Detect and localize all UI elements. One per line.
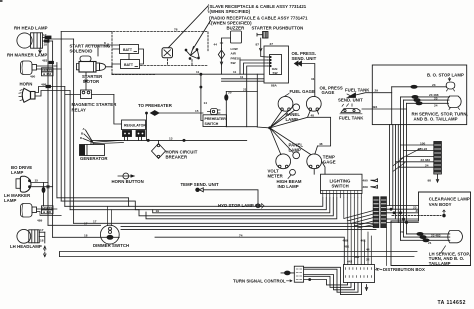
hyd stop lamp switch S7 <box>256 204 265 209</box>
svg-text:LAMP: LAMP <box>289 147 301 152</box>
dashed stub below LH headlamp <box>44 246 46 257</box>
wire 20 with inline connector <box>225 91 232 127</box>
svg-text:11: 11 <box>196 70 200 74</box>
slave receptacle callout label <box>208 4 307 14</box>
high beam indicator lamp label <box>277 175 302 189</box>
connector bar output wires <box>386 205 418 222</box>
svg-text:FUEL TANK: FUEL TANK <box>345 88 370 93</box>
svg-text:18: 18 <box>40 239 44 243</box>
wire ign pin 3 down to bus <box>244 63 268 74</box>
arrow tick below distribution box <box>365 285 367 291</box>
LH headlamp label <box>10 244 42 249</box>
starter pushbutton label <box>252 26 304 31</box>
fuel tank label <box>339 115 364 120</box>
svg-text:AIR: AIR <box>231 52 237 56</box>
wire node to volt meter <box>270 128 281 155</box>
wire 24 to LH taillamp <box>400 230 450 235</box>
svg-text:13: 13 <box>169 136 173 140</box>
clearance lamp dashed wire and lamp <box>392 209 445 217</box>
lighting switch pin stubs <box>323 194 362 198</box>
drawing number TA 114652 <box>438 300 466 306</box>
wire starter motor to relay <box>85 72 87 90</box>
wire 11 bus <box>112 70 264 74</box>
long harness wire A <box>57 198 323 207</box>
magnetic starter relay label <box>72 102 118 112</box>
generator G1 <box>80 145 105 156</box>
horn LS1 <box>19 88 35 102</box>
low air pressure switch S1 <box>218 49 224 75</box>
harness top jog wire <box>61 31 112 33</box>
svg-text:489: 489 <box>363 185 368 189</box>
svg-text:TO PREHEATER: TO PREHEATER <box>138 103 173 108</box>
svg-text:PRESS: PRESS <box>231 56 242 60</box>
svg-text:23: 23 <box>413 205 417 209</box>
svg-text:SOLENOID: SOLENOID <box>70 49 93 54</box>
fuel tank sending unit MT3 <box>347 93 356 98</box>
lighting switch S5 <box>321 174 363 193</box>
preheater switch label box <box>203 115 227 127</box>
svg-text:489: 489 <box>37 219 42 223</box>
slave receptacle J1 <box>162 48 173 58</box>
svg-text:490: 490 <box>363 178 368 182</box>
turn signal wire loop 4 <box>304 276 351 287</box>
starter pushbutton S2 <box>256 32 269 58</box>
wire 24 to trailer connector <box>398 164 434 168</box>
clearance lamp van body box <box>391 192 471 266</box>
svg-text:DIMMER SWITCH: DIMMER SWITCH <box>93 243 129 248</box>
svg-text:48: 48 <box>311 113 315 117</box>
svg-text:SW: SW <box>273 71 278 75</box>
harness vertical wire 1 <box>47 37 49 225</box>
temp gage label <box>323 155 336 165</box>
RH taillamp label <box>412 112 468 122</box>
svg-text:VAN BODY: VAN BODY <box>429 202 452 207</box>
battery BAT1 <box>120 45 139 54</box>
wire 490 from BO drive lamp <box>32 179 49 207</box>
svg-text:461: 461 <box>361 239 366 243</box>
oil pressure sending unit MT1 <box>295 61 315 96</box>
wire 489 connector stub <box>363 185 378 189</box>
svg-text:481: 481 <box>344 245 349 249</box>
svg-text:SEND. UNIT: SEND. UNIT <box>292 56 317 61</box>
panel lamp 1 E6 <box>293 104 300 111</box>
svg-text:& 484: & 484 <box>43 72 52 76</box>
svg-text:TEMP SEND. UNIT: TEMP SEND. UNIT <box>181 182 219 187</box>
wire node to panel lamp 2 <box>270 128 293 152</box>
oil pressure sending unit label <box>292 51 317 61</box>
ignition switch outer housing <box>264 42 289 83</box>
starter motor label <box>82 74 103 84</box>
horn label <box>20 82 33 87</box>
svg-text:14: 14 <box>204 101 208 105</box>
oil pressure gage label <box>320 86 343 96</box>
oil pressure gage M2 <box>306 96 321 111</box>
high beam indicator lamp E8 <box>290 169 296 175</box>
to preheater label <box>138 103 173 108</box>
LH taillamp E11 <box>448 231 463 243</box>
wire 100 to trailer connector <box>401 141 434 145</box>
trailer connector CP1 <box>434 142 442 175</box>
wire 21 horizontal to panel feed <box>226 88 257 92</box>
horn circuit breaker CB1 <box>152 140 166 158</box>
svg-text:BUZZER: BUZZER <box>227 26 246 31</box>
dashed slave/radio harness outline <box>112 32 208 75</box>
wire 29 to RH taillamp box <box>356 89 392 95</box>
wire node to panel lamp 1 <box>270 110 295 128</box>
BO drive lamp E3 <box>16 176 31 192</box>
svg-text:18: 18 <box>84 233 88 237</box>
svg-text:100: 100 <box>420 141 425 145</box>
regulator pin drop wires <box>125 137 142 141</box>
svg-text:11: 11 <box>233 70 237 74</box>
svg-text:17: 17 <box>43 33 47 37</box>
svg-text:TAILLAMP: TAILLAMP <box>429 261 451 266</box>
turn signal wire loop 2 <box>304 269 358 292</box>
svg-text:24: 24 <box>434 104 438 108</box>
wire 498 from horn <box>35 83 65 93</box>
turn signal wire loop 1 <box>304 267 362 294</box>
wire 78 label on dashed harness <box>174 27 178 31</box>
LH marker lamp label <box>4 193 31 203</box>
long harness wire 19 <box>153 198 330 213</box>
svg-text:88A: 88A <box>271 84 277 88</box>
starter motor B1 <box>77 56 113 72</box>
buzzer label <box>227 26 246 31</box>
harness vertical wire 2 <box>52 41 54 237</box>
wire 24 to RH taillamp <box>407 102 449 108</box>
panel feed wire to node <box>226 127 269 128</box>
svg-text:LOW: LOW <box>231 47 238 51</box>
svg-text:21: 21 <box>428 241 432 245</box>
temp sending unit MT2 <box>196 188 258 207</box>
panel feed vertical from ignition <box>256 74 258 127</box>
wire 494 to RH taillamp box <box>362 105 407 109</box>
wire 490 connector stub <box>363 178 378 182</box>
corner speck <box>0 0 3 2</box>
dimmer switch feed wires <box>48 221 119 237</box>
horn circuit breaker label <box>166 150 198 160</box>
panel lamp 1 label <box>286 112 301 122</box>
svg-text:STARTER PUSHBUTTON: STARTER PUSHBUTTON <box>252 26 304 31</box>
svg-text:TURN SIGNAL CONTROL: TURN SIGNAL CONTROL <box>233 278 286 283</box>
distribution box label <box>376 267 425 272</box>
wire 21 to LH taillamp <box>401 239 450 245</box>
wire 23 483 to LH taillamp <box>404 233 450 238</box>
harness vertical wire 3 <box>56 63 58 198</box>
svg-text:LIGHTING: LIGHTING <box>330 178 352 183</box>
wire 23 488 to RH taillamp <box>401 93 450 98</box>
wire to trailer connector pin 3 <box>407 156 434 158</box>
svg-text:24: 24 <box>425 164 429 168</box>
long harness wire E <box>70 198 337 219</box>
wire temp gage to lighting switch <box>314 161 325 174</box>
svg-text:498: 498 <box>343 239 348 243</box>
generator output curves to regulator <box>93 140 124 144</box>
svg-text:LAMP: LAMP <box>4 198 16 203</box>
wire 17 from RH head lamp <box>43 33 52 39</box>
horn button label <box>112 179 144 184</box>
svg-text:21: 21 <box>243 88 247 92</box>
feeder riser wire labels <box>343 239 366 264</box>
dimmer switch riser wires <box>108 206 112 225</box>
svg-text:24: 24 <box>400 230 404 234</box>
svg-text:DISTRIBUTION BOX: DISTRIBUTION BOX <box>383 267 425 272</box>
svg-text:74: 74 <box>239 233 243 237</box>
clearance lamp label <box>429 197 470 207</box>
RH head lamp label <box>14 26 48 31</box>
annotation arrow to radio receptacle <box>193 21 211 50</box>
RH taillamp enclosure box <box>372 65 466 125</box>
wire node to fuel gage pins <box>270 111 289 128</box>
long harness wire 22 <box>60 257 415 262</box>
generator terminal leads <box>80 127 93 143</box>
wire 23 to RH taillamp <box>404 96 450 101</box>
wire 490 with connector labels to LH marker lamp <box>37 206 57 223</box>
wire relay to regulator area <box>114 95 122 125</box>
long harness wire H <box>121 229 376 231</box>
svg-text:494: 494 <box>372 105 377 109</box>
LH taillamp drop wires <box>400 212 408 224</box>
svg-text:HORN: HORN <box>20 82 33 87</box>
radio receptacle J2 <box>185 47 199 60</box>
svg-text:FUEL GAGE: FUEL GAGE <box>290 89 316 94</box>
wire from LH marker lamp lower terminal <box>37 212 62 216</box>
regulator VR1 <box>122 120 147 130</box>
wire 18 from LH headlamp <box>39 232 45 243</box>
svg-text:11: 11 <box>240 75 244 79</box>
svg-text:17: 17 <box>84 221 88 225</box>
harness vertical wire 5 <box>64 87 66 207</box>
svg-text:483: 483 <box>42 59 47 63</box>
svg-text:METER: METER <box>268 173 284 178</box>
harness vertical wire 6 <box>69 91 71 210</box>
BO stop lamp label <box>427 72 464 81</box>
wire from to-preheater bus down <box>146 112 148 140</box>
wire 98 below trailer connector <box>428 174 439 183</box>
svg-text:RH HEAD LAMP: RH HEAD LAMP <box>14 26 48 31</box>
wire 48 node to oil gage and beyond <box>270 111 331 147</box>
svg-text:LAMP: LAMP <box>11 170 23 175</box>
dimmer switch label <box>93 243 129 248</box>
svg-text:AND B. O. TAILLAMP: AND B. O. TAILLAMP <box>414 117 458 122</box>
svg-text:RH MARKER LAMP: RH MARKER LAMP <box>7 53 47 58</box>
svg-text:GENERATOR: GENERATOR <box>80 156 108 161</box>
svg-text:23 483: 23 483 <box>431 233 441 237</box>
wire from bus down to preheater switch <box>200 73 207 120</box>
long harness wire 44 <box>60 248 418 257</box>
wire 13 generator-regulator bus <box>91 136 247 144</box>
svg-text:RELAY: RELAY <box>72 107 87 112</box>
svg-text:460: 460 <box>354 255 359 259</box>
svg-text:FUEL TANK: FUEL TANK <box>339 115 364 120</box>
svg-text:IND LAMP: IND LAMP <box>278 184 299 189</box>
svg-text:15: 15 <box>195 109 199 113</box>
fuel gage label <box>285 89 315 96</box>
distribution box TB1 <box>344 265 375 283</box>
wire node to temp gage <box>270 128 318 155</box>
panel feed node junction <box>269 127 271 129</box>
long harness wire D <box>65 198 334 216</box>
wire 8 from batteries to solenoid <box>86 41 120 56</box>
svg-text:(WHEN SPECIFIED): (WHEN SPECIFIED) <box>210 9 251 14</box>
magnetic starter relay K1 <box>65 90 114 99</box>
wire 493-23 to trailer connector <box>404 147 434 151</box>
svg-text:REGULATOR: REGULATOR <box>124 123 146 127</box>
svg-text:TA 114652: TA 114652 <box>438 300 466 306</box>
svg-text:GAGE: GAGE <box>322 90 335 95</box>
ignition switch S3 <box>268 55 282 88</box>
BO stop lamp E9 <box>446 82 455 91</box>
temp gage M4 <box>307 154 322 169</box>
preheater switch S4 <box>208 109 221 115</box>
LH taillamp label <box>429 246 470 266</box>
svg-text:27: 27 <box>270 42 274 46</box>
harness connector bar 1 <box>373 197 379 228</box>
long harness wire G <box>121 226 376 228</box>
harness vertical wire 7 <box>73 39 75 223</box>
svg-text:SW: SW <box>231 61 236 65</box>
svg-text:SWITCH: SWITCH <box>205 122 219 126</box>
svg-text:HORN BUTTON: HORN BUTTON <box>112 179 144 184</box>
svg-text:48: 48 <box>319 142 323 146</box>
turn signal wire loop 5 <box>304 279 348 285</box>
buzzer B2 <box>214 31 242 49</box>
svg-text:15: 15 <box>35 179 39 183</box>
wire from horn lower terminal <box>35 91 70 97</box>
lighting switch to connector mesh <box>344 198 374 230</box>
RH taillamp E10 <box>448 96 462 110</box>
distribution box feeder risers <box>348 222 372 265</box>
horn button S6 <box>118 173 134 179</box>
regulator pin blocks <box>123 131 146 137</box>
svg-text:B. O. STOP LAMP: B. O. STOP LAMP <box>427 72 464 77</box>
svg-text:PREHEATER: PREHEATER <box>205 117 227 121</box>
svg-text:BATT: BATT <box>123 48 133 52</box>
LH marker lamp E4 <box>21 204 37 218</box>
svg-text:23 483: 23 483 <box>421 158 431 162</box>
svg-text:442: 442 <box>347 260 352 264</box>
svg-text:78: 78 <box>174 27 178 31</box>
volt meter label <box>268 169 284 179</box>
svg-text:29: 29 <box>375 89 379 93</box>
wire ign pin 2 down to bus <box>240 60 268 74</box>
wire 489 from BO drive lamp <box>32 186 53 188</box>
svg-text:LAMP: LAMP <box>286 117 298 122</box>
low air pressure switch label <box>231 47 242 65</box>
annotation arrow to slave receptacle <box>169 6 209 48</box>
harness connector bar 2 <box>381 197 387 228</box>
svg-text:BREAKER: BREAKER <box>166 155 188 160</box>
svg-text:18: 18 <box>44 42 48 46</box>
svg-text:44: 44 <box>214 43 218 47</box>
long harness wire 74 <box>155 233 344 264</box>
dimmer switch S8 <box>100 225 119 244</box>
long harness wire B <box>61 198 326 210</box>
to preheater wire with connector <box>151 109 204 115</box>
svg-text:17: 17 <box>40 228 44 232</box>
svg-text:LH HEADLAMP: LH HEADLAMP <box>10 244 42 249</box>
wire 17 from LH headlamp <box>39 228 45 232</box>
svg-text:98: 98 <box>428 179 432 183</box>
svg-text:17: 17 <box>93 220 97 224</box>
LH headlamp E5 <box>17 229 39 243</box>
panel lamp 2 label <box>289 143 304 153</box>
start actuating solenoid label <box>70 44 111 54</box>
svg-text:8: 8 <box>104 41 106 45</box>
volt meter M3 <box>276 154 291 169</box>
wire 484 with connector labels HDLTS <box>30 68 61 79</box>
svg-text:& 490: & 490 <box>43 210 52 214</box>
svg-text:BATT: BATT <box>124 63 134 67</box>
wire 23 to BO stop lamp <box>392 83 447 89</box>
svg-text:SEND. UNIT: SEND. UNIT <box>338 98 363 103</box>
RH box drop wires <box>401 97 407 240</box>
RH box lower drop wires <box>390 125 399 223</box>
temp sending unit label <box>181 182 219 187</box>
svg-text:87: 87 <box>256 43 260 47</box>
wire 483 from RH marker lamp <box>37 59 57 67</box>
wire pair to ignition housing <box>222 75 265 81</box>
mesh diagonals to trailer connector <box>393 149 421 172</box>
turn signal control label <box>233 278 292 283</box>
fuel tank symbol <box>340 104 362 114</box>
svg-text:31: 31 <box>311 77 315 81</box>
RH marker lamp label <box>7 53 47 58</box>
BO stop lamp drop wire <box>391 87 393 125</box>
turn signal wire loop 3 <box>304 275 355 290</box>
svg-text:23: 23 <box>432 83 436 87</box>
harness vertical wire 4 <box>60 32 62 202</box>
svg-text:23: 23 <box>434 96 438 100</box>
fuel gage M1 <box>278 96 293 111</box>
fuel tank sending unit label <box>338 88 370 103</box>
RH head lamp E1 <box>17 33 43 53</box>
svg-text:GAGE: GAGE <box>323 159 336 164</box>
wire jog to outer bundle line <box>48 38 74 40</box>
wire 23 483 to trailer connector <box>396 158 434 162</box>
turn signal control S9 <box>281 266 304 282</box>
BO drive lamp label <box>11 165 32 175</box>
wire ign pin 4 to panel feed <box>247 66 268 127</box>
hyd stop lamp switch label <box>218 203 263 208</box>
battery BAT2 <box>121 60 140 69</box>
wire 18 from RH head lamp <box>43 40 53 47</box>
wire from connector bar down to distribution box edge <box>386 228 388 266</box>
panel lamp 2 E7 <box>293 152 300 159</box>
generator label <box>80 156 108 161</box>
RH marker lamp E2 <box>21 61 37 75</box>
long harness wire F <box>74 220 374 224</box>
battery interconnect wires <box>112 49 144 64</box>
svg-text:19: 19 <box>156 209 160 213</box>
svg-text:SWITCH: SWITCH <box>332 184 349 189</box>
radio receptacle callout label <box>210 16 309 26</box>
svg-text:490: 490 <box>30 75 35 79</box>
